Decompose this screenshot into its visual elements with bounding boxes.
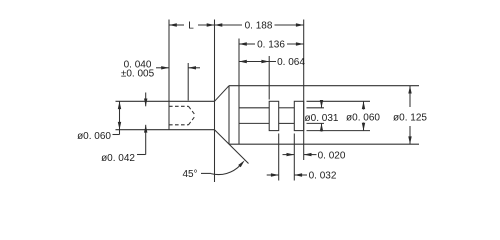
dia 0.042 leader elbow	[137, 154, 146, 156]
dia 0.031 top arrow line	[321, 101, 323, 108]
45deg leader dash	[201, 172, 211, 174]
dim 0.040 left arrow line	[156, 67, 169, 69]
dim 0.020 left arrow line	[283, 154, 295, 156]
extension line flange2 left below	[293, 134, 295, 181]
cone top slant	[215, 86, 230, 102]
extension line hole cone start	[187, 63, 189, 101]
svg-text:ø0. 060: ø0. 060	[346, 113, 380, 124]
tail shaft top edge seg2	[279, 107, 295, 109]
arrowhead dia 0.060 left bottom	[118, 122, 121, 130]
arrowhead L left	[169, 23, 177, 26]
extension shaft dia bottom	[307, 122, 325, 124]
dim L line left	[169, 24, 184, 26]
arrowhead 0.040 right	[188, 66, 196, 69]
extension line flange1 left above	[268, 56, 270, 100]
dia 0.060 right top arrow line	[363, 101, 365, 109]
extension flange dia bottom	[307, 130, 371, 132]
arrowhead 0.188 left	[215, 23, 223, 26]
dia 0.060 left leader elbow	[113, 134, 120, 136]
shank left end face + extension line up	[168, 20, 170, 130]
arrowhead 45deg arc end	[238, 160, 245, 167]
dim 0.032 right arrow line	[294, 174, 307, 176]
shank bottom edge + dia 0.060 left extension	[116, 129, 215, 131]
dim 0.020 right arrow line	[304, 154, 317, 156]
head top edge + dia 0.125 top extension	[229, 85, 419, 87]
svg-text:0. 064: 0. 064	[277, 57, 305, 68]
dim 0.040 right arrow line	[188, 67, 200, 69]
flange 2	[294, 101, 303, 130]
hidden drill cone bottom	[189, 116, 196, 125]
dim 0.136 line left	[239, 43, 255, 45]
arrowhead 0.032 right	[294, 173, 302, 176]
arrowhead 0.188 right	[296, 23, 304, 26]
svg-text:0. 032: 0. 032	[309, 170, 337, 181]
tail shaft bottom edge seg1	[239, 122, 269, 124]
head bottom edge + dia 0.125 bottom extension	[229, 143, 419, 145]
head junction line + extensions up and down	[214, 20, 216, 183]
extension line flange1 right below	[278, 134, 280, 181]
arrowhead dia 0.060 right top	[362, 101, 365, 109]
arrowhead 0.040 left	[161, 66, 169, 69]
head right vertical + 0.136 extension above	[238, 39, 240, 145]
tail shaft bottom edge seg2	[279, 122, 295, 124]
dia 0.125 top arrow line	[409, 86, 411, 107]
dia 0.125 bottom arrow line	[409, 126, 411, 144]
arrowhead 0.064 right	[261, 60, 269, 63]
hidden hole top line	[169, 105, 189, 107]
arrowhead dia 0.031 top	[320, 100, 323, 108]
arrowhead L right	[207, 23, 215, 26]
arrowhead dia 0.042 top	[144, 99, 147, 107]
svg-text:±0. 005: ±0. 005	[121, 68, 155, 79]
arrowhead dia 0.031 bottom	[320, 123, 323, 131]
svg-text:ø0. 042: ø0. 042	[101, 153, 135, 164]
dim dia 0.060 left vertical	[119, 101, 121, 134]
dim 0.188 line left	[215, 24, 243, 26]
dim 0.188 line right	[275, 24, 304, 26]
svg-text:0. 136: 0. 136	[257, 40, 285, 51]
dia 0.042 top arrow line	[145, 93, 147, 107]
arrowhead dia 0.042 bottom	[144, 125, 147, 133]
hidden hole bottom line	[169, 124, 189, 126]
svg-text:0. 020: 0. 020	[318, 150, 346, 161]
45deg arc	[211, 166, 240, 175]
dim 0.032 left arrow line	[267, 174, 279, 176]
svg-text:L: L	[188, 21, 194, 32]
arrowhead dia 0.125 bottom	[408, 136, 411, 144]
extension shaft dia top	[307, 107, 325, 109]
arrowhead 0.064 left	[239, 60, 247, 63]
extension flange dia top	[307, 100, 371, 102]
arrowhead dia 0.060 right bottom	[362, 123, 365, 131]
svg-text:0. 188: 0. 188	[245, 21, 273, 32]
dia 0.031 bottom arrow line	[321, 123, 323, 131]
svg-text:ø0. 060: ø0. 060	[77, 131, 111, 142]
svg-text:45°: 45°	[182, 169, 197, 180]
shank top edge + dia 0.060 left extension	[116, 100, 215, 102]
cone bottom slant extended for 45deg dim	[215, 130, 249, 164]
arrowhead dia 0.060 left top	[118, 101, 121, 109]
tail shaft top edge seg1	[239, 107, 269, 109]
arrowhead 0.136 right	[296, 42, 304, 45]
dim L line right	[198, 24, 215, 26]
svg-text:ø0. 125: ø0. 125	[393, 112, 427, 123]
dim 0.136 line right	[287, 43, 304, 45]
arrowhead 0.032 left	[271, 173, 279, 176]
hidden drill cone top	[189, 106, 196, 115]
dia 0.060 right bottom arrow line	[363, 123, 365, 131]
flange 1	[269, 101, 279, 130]
head left vertical	[228, 86, 230, 145]
dia 0.042 bottom arrow line	[145, 125, 147, 155]
arrowhead 0.020 left	[287, 153, 295, 156]
svg-text:ø0. 031: ø0. 031	[305, 113, 339, 124]
arrowhead 0.020 right	[304, 153, 312, 156]
arrowhead dia 0.125 top	[408, 86, 411, 94]
extension line part right end	[303, 20, 305, 161]
arrowhead 0.136 left	[239, 42, 247, 45]
dim 0.064 line	[239, 61, 276, 63]
